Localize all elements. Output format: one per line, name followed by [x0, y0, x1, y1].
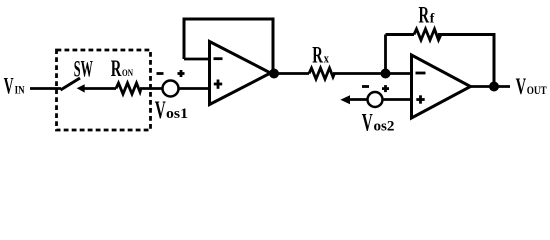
svg-text:V: V: [4, 74, 14, 99]
svg-text:R: R: [111, 56, 122, 81]
svg-text:R: R: [419, 3, 430, 28]
svg-text:SW: SW: [74, 56, 93, 81]
svg-text:f: f: [430, 12, 435, 27]
svg-text:os2: os2: [374, 119, 395, 135]
svg-text:V: V: [155, 97, 166, 124]
svg-text:V: V: [362, 109, 373, 136]
svg-text:x: x: [324, 50, 330, 65]
svg-text:R: R: [312, 42, 323, 67]
svg-text:os1: os1: [166, 106, 188, 122]
svg-text:ON: ON: [122, 68, 133, 79]
svg-text:OUT: OUT: [527, 83, 547, 97]
svg-text:IN: IN: [15, 84, 26, 96]
svg-text:V: V: [516, 74, 527, 100]
